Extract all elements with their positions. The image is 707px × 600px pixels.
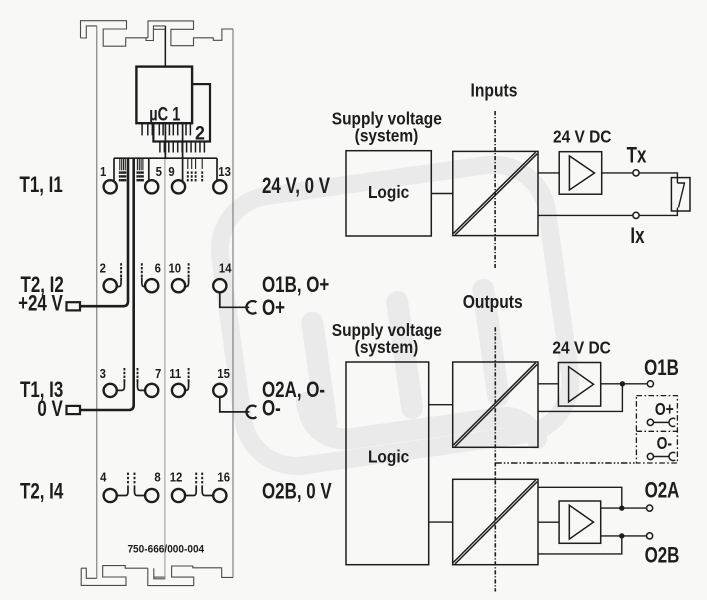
svg-text:24 V DC: 24 V DC — [552, 339, 611, 358]
dashed field boundary [outputs] — [494, 327, 496, 591]
wire: 24V terminal bus — [114, 157, 217, 159]
svg-text:O+: O+ — [655, 401, 674, 420]
svg-text:µC 1: µC 1 — [149, 102, 180, 125]
wire: converter U7 bypass to node O1B — [538, 384, 622, 412]
svg-text:1: 1 — [100, 165, 107, 180]
module center divider — [164, 29, 166, 577]
terminal 7 — [145, 384, 158, 397]
module right wall — [232, 29, 234, 577]
hook/link terminal 6 — [142, 277, 145, 286]
svg-text:O+: O+ — [262, 296, 285, 321]
svg-text:O-: O- — [262, 397, 281, 422]
O+ plug contact — [647, 418, 675, 426]
svg-text:15: 15 — [217, 366, 230, 381]
uC box U2 — [153, 84, 210, 141]
terminal 10 — [172, 279, 185, 292]
svg-text:+24 V: +24 V — [18, 291, 63, 316]
converter U8: isolated converter — [453, 479, 538, 564]
wire: bus drop to terminal 13 — [216, 158, 218, 180]
O2B terminal — [647, 533, 653, 539]
svg-text:Supply voltage: Supply voltage — [332, 110, 442, 129]
load / sensor box — [671, 178, 690, 211]
driver U9: output driver (amplifier) — [558, 363, 600, 407]
svg-text:750-666/000-004: 750-666/000-004 — [127, 543, 204, 556]
Tx terminal — [633, 170, 639, 176]
svg-text:2: 2 — [100, 261, 107, 276]
hook/link terminal 16 — [202, 485, 212, 495]
terminal 15 — [213, 384, 226, 397]
svg-text:2: 2 — [195, 122, 205, 144]
svg-text:9: 9 — [168, 165, 175, 180]
svg-text:8: 8 — [154, 470, 161, 485]
wire: +24V distribution line — [80, 158, 128, 306]
svg-text:Ix: Ix — [630, 224, 644, 249]
module housing top profile — [81, 21, 234, 47]
terminal 5 — [145, 180, 158, 193]
wire: driver U10 to O2A terminal — [601, 507, 647, 509]
O+ plug connector — [246, 301, 256, 314]
wire: 0V distribution line — [80, 158, 134, 410]
svg-text:O-: O- — [657, 435, 672, 454]
svg-text:O2B, 0 V: O2B, 0 V — [262, 480, 332, 505]
svg-text:12: 12 — [170, 470, 183, 485]
svg-text:5: 5 — [156, 165, 163, 180]
svg-text:16: 16 — [217, 470, 230, 485]
wire: driver U5 to Tx terminal — [602, 172, 633, 174]
wire: logic to converter [inputs] — [431, 193, 453, 195]
svg-text:4: 4 — [100, 470, 107, 485]
terminal 16 — [213, 489, 226, 502]
svg-text:6: 6 — [155, 261, 162, 276]
junction node O1B — [620, 381, 625, 386]
hook/link terminal 4 — [118, 485, 129, 495]
WAGO logo watermark — [213, 158, 578, 479]
svg-text:14: 14 — [219, 261, 232, 276]
terminal 1 — [104, 180, 117, 193]
driver U10: output driver (amplifier) — [559, 501, 601, 543]
terminal 11 — [172, 384, 185, 397]
svg-text:24 V, 0 V: 24 V, 0 V — [262, 174, 330, 199]
wire: terminal 15 to O- connector — [220, 398, 250, 412]
wire: converter to Ix terminal — [538, 214, 633, 216]
terminal 2 — [104, 279, 117, 292]
svg-text:(system): (system) — [355, 127, 419, 146]
svg-text:0 V: 0 V — [37, 397, 62, 422]
junction node O2A — [619, 505, 624, 510]
wire: converter U8 bypass to node O2B — [538, 536, 622, 554]
wire: converter to driver U5 — [538, 172, 559, 174]
wire: bus drop to terminal 1 — [113, 158, 115, 180]
svg-text:13: 13 — [218, 165, 231, 180]
wire: uC U1 to terminal bus — [164, 124, 166, 159]
wire: driver U9 to O1B terminal — [601, 383, 648, 385]
hook/link terminal 11 — [186, 381, 189, 390]
hook/link terminal 12 — [186, 485, 196, 495]
hook/link terminal 2 — [117, 277, 121, 286]
logic block U6 [outputs] — [346, 362, 429, 565]
terminal 8 — [145, 489, 158, 502]
internal ribbon links below bus (right) — [187, 158, 203, 181]
svg-text:7: 7 — [155, 366, 162, 381]
svg-text:T2, I4: T2, I4 — [20, 480, 63, 505]
svg-text:O1B: O1B — [644, 356, 679, 381]
dashed field boundary [inputs] — [494, 111, 496, 268]
wire: converter U8 to node O2A — [538, 487, 622, 508]
wire: converter U8 to driver U10 — [538, 521, 559, 523]
svg-text:Logic: Logic — [368, 448, 409, 467]
dashed plug group box — [636, 396, 677, 463]
svg-text:Outputs: Outputs — [463, 292, 523, 312]
module housing bottom profile — [81, 566, 233, 586]
O- plug contact — [647, 452, 675, 460]
terminal 14 — [213, 279, 226, 292]
O- plug connector — [246, 406, 256, 419]
wire: logic to converter U7 — [429, 404, 453, 406]
svg-text:Supply voltage: Supply voltage — [332, 321, 442, 340]
terminal 9 — [172, 180, 185, 193]
svg-text:Inputs: Inputs — [471, 81, 518, 101]
terminal 13 — [213, 180, 226, 193]
svg-text:O1B, O+: O1B, O+ — [262, 273, 329, 298]
terminal 4 — [104, 489, 117, 502]
svg-text:O2A: O2A — [645, 479, 680, 504]
svg-text:11: 11 — [169, 366, 181, 381]
terminal 6 — [145, 279, 158, 292]
wire: logic to converter U8 — [429, 521, 453, 523]
wire: Tx to load — [639, 173, 677, 183]
hook/link terminal 10 — [186, 277, 189, 286]
load symbol stroke — [677, 183, 684, 208]
+24V field connector — [67, 302, 81, 310]
op uC box U1 — [136, 67, 192, 124]
converter U7: isolated converter — [453, 362, 538, 447]
wire: driver U10 to O2B terminal — [601, 535, 647, 537]
junction node O2B — [619, 533, 624, 538]
terminal 3 — [104, 384, 117, 397]
svg-text:24 V DC: 24 V DC — [553, 128, 612, 147]
wire: terminal 14 to O+ connector — [220, 293, 250, 307]
wire: profile slot to uC box — [164, 26, 166, 67]
O1B terminal — [647, 381, 653, 387]
svg-text:Logic: Logic — [368, 183, 409, 202]
svg-text:Tx: Tx — [627, 144, 647, 169]
svg-text:3: 3 — [100, 366, 107, 381]
uC U1 pins — [142, 124, 190, 136]
O2A terminal — [647, 505, 653, 511]
0V field connector — [67, 406, 81, 414]
svg-text:10: 10 — [168, 261, 181, 276]
uC U2 pins — [160, 141, 205, 152]
dash-dot boundary link — [495, 462, 636, 464]
wire: load to Ix — [639, 208, 677, 216]
logic block U3 [inputs] — [346, 151, 431, 236]
hook/link terminal 7 — [138, 381, 145, 390]
wire: uC U1 to terminal 9 — [182, 124, 184, 182]
hook/link terminal 3 — [118, 381, 125, 390]
svg-text:T1, I1: T1, I1 — [20, 173, 63, 198]
converter U4: isolated converter — [453, 151, 538, 235]
wire: bus drop to terminal 5 — [148, 158, 150, 180]
module left wall — [96, 26, 98, 578]
driver U5: output driver (amplifier) — [559, 152, 602, 195]
svg-text:(system): (system) — [355, 338, 419, 357]
wire: converter U7 to driver U9 — [538, 383, 558, 385]
svg-text:O2B: O2B — [645, 543, 680, 568]
terminal 12 — [172, 489, 185, 502]
Ix terminal — [633, 212, 639, 218]
hook/link terminal 8 — [135, 485, 145, 495]
internal ribbon links below bus (left) — [119, 158, 144, 181]
